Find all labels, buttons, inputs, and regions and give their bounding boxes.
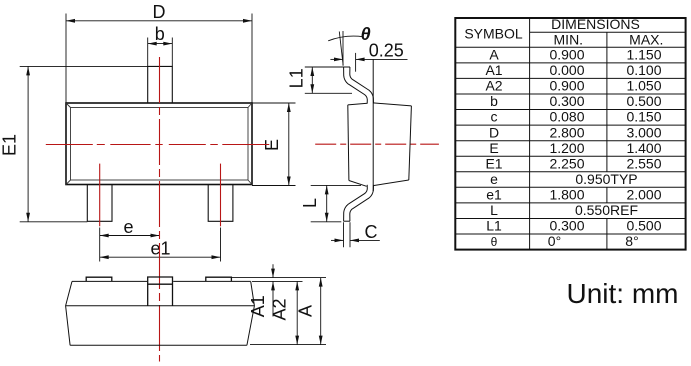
svg-text:Unit: mm: Unit: mm bbox=[567, 278, 679, 309]
svg-text:0.100: 0.100 bbox=[626, 62, 661, 78]
table body text bbox=[485, 47, 661, 250]
svg-text:L1: L1 bbox=[486, 218, 502, 234]
svg-text:2.800: 2.800 bbox=[549, 124, 584, 140]
top-view body inner (chamfer) rectangle bbox=[66, 103, 252, 185]
table header text bbox=[464, 16, 663, 48]
red centerline vertical (main, through tab and both lower views) bbox=[159, 57, 161, 362]
svg-text:A1: A1 bbox=[248, 295, 268, 317]
dimension A2 bbox=[250, 281, 326, 344]
bottom-right lead bbox=[208, 185, 233, 222]
svg-text:E1: E1 bbox=[485, 155, 502, 171]
svg-text:0.000: 0.000 bbox=[549, 62, 584, 78]
side-view bottom lead (gull wing) bbox=[344, 185, 374, 221]
red centerline horizontal (top view) bbox=[46, 144, 271, 146]
side-view top lead (gull wing) bbox=[344, 67, 374, 103]
svg-text:1.200: 1.200 bbox=[549, 140, 584, 156]
svg-text:0.150: 0.150 bbox=[626, 109, 661, 125]
svg-text:8°: 8° bbox=[625, 233, 638, 249]
svg-text:A: A bbox=[296, 305, 316, 317]
svg-text:E: E bbox=[489, 140, 498, 156]
svg-text:2.250: 2.250 bbox=[549, 155, 584, 171]
top-view body outer rectangle bbox=[66, 103, 252, 185]
dimension A1 bbox=[232, 264, 326, 316]
table grid lines bbox=[455, 18, 685, 250]
front-view right lead stub bbox=[206, 277, 232, 281]
front-view center tab lead bbox=[148, 277, 173, 306]
svg-text:A1: A1 bbox=[485, 62, 502, 78]
svg-text:1.150: 1.150 bbox=[626, 47, 661, 63]
red centerline through left lead bbox=[99, 164, 101, 227]
red centerline through right lead bbox=[220, 164, 222, 227]
svg-text:1.800: 1.800 bbox=[549, 187, 584, 203]
svg-text:0.500: 0.500 bbox=[626, 218, 661, 234]
front-view mold parting line bbox=[66, 305, 255, 307]
svg-text:A2: A2 bbox=[270, 298, 290, 320]
svg-text:L: L bbox=[300, 198, 320, 208]
svg-text:D: D bbox=[489, 124, 499, 140]
side-view lead through-line bbox=[372, 59, 374, 191]
svg-text:0°: 0° bbox=[548, 233, 561, 249]
dimension b bbox=[148, 38, 173, 67]
table frame bbox=[455, 18, 685, 250]
svg-text:DIMENSIONS: DIMENSIONS bbox=[551, 16, 640, 32]
svg-text:0.550REF: 0.550REF bbox=[575, 202, 638, 218]
red centerline horizontal (side view) bbox=[315, 143, 439, 145]
dimension L bbox=[311, 185, 361, 221]
svg-text:e: e bbox=[490, 171, 498, 187]
svg-text:0.300: 0.300 bbox=[549, 93, 584, 109]
svg-text:2.000: 2.000 bbox=[626, 187, 661, 203]
svg-text:3.000: 3.000 bbox=[626, 124, 661, 140]
svg-text:c: c bbox=[491, 109, 498, 125]
svg-text:C: C bbox=[365, 222, 378, 242]
dimension theta: seating extension line bbox=[342, 31, 344, 66]
svg-text:b: b bbox=[155, 24, 165, 44]
svg-text:0.900: 0.900 bbox=[549, 47, 584, 63]
svg-text:1.050: 1.050 bbox=[626, 78, 661, 94]
side-view body bbox=[348, 103, 412, 186]
front-view left lead stub bbox=[86, 277, 112, 281]
dimension E1 bbox=[20, 66, 148, 221]
front-view body outline bbox=[66, 281, 255, 345]
svg-text:L: L bbox=[490, 202, 498, 218]
svg-text:A2: A2 bbox=[485, 78, 502, 94]
svg-text:MIN.: MIN. bbox=[554, 31, 584, 47]
svg-text:L1: L1 bbox=[287, 68, 307, 88]
dimension e bbox=[100, 228, 221, 262]
dimension A bbox=[320, 278, 322, 345]
dimension e1 bbox=[100, 256, 221, 258]
svg-text:2.550: 2.550 bbox=[626, 155, 661, 171]
svg-text:MAX.: MAX. bbox=[629, 31, 663, 47]
dimension theta: slanted lead-face line bbox=[339, 32, 343, 66]
svg-text:e1: e1 bbox=[150, 239, 170, 259]
svg-text:E1: E1 bbox=[0, 134, 20, 156]
dimension C bbox=[331, 222, 380, 247]
svg-text:1.400: 1.400 bbox=[626, 140, 661, 156]
svg-text:e: e bbox=[123, 217, 133, 237]
dimension D bbox=[66, 14, 252, 104]
dimension L1 bbox=[305, 67, 352, 93]
dimension 0.25: gauge extension line bbox=[330, 53, 407, 72]
top tab lead (b) bbox=[148, 66, 173, 103]
svg-text:0.950TYP: 0.950TYP bbox=[575, 171, 637, 187]
svg-text:0.300: 0.300 bbox=[549, 218, 584, 234]
svg-text:A: A bbox=[489, 47, 499, 63]
dimension theta: angle arc bbox=[328, 36, 363, 41]
svg-text:θ: θ bbox=[491, 235, 498, 249]
svg-text:e1: e1 bbox=[486, 187, 502, 203]
svg-text:b: b bbox=[490, 93, 498, 109]
svg-text:D: D bbox=[153, 2, 166, 22]
svg-text:0.25: 0.25 bbox=[369, 41, 404, 61]
svg-text:0.500: 0.500 bbox=[626, 93, 661, 109]
dimension E bbox=[252, 103, 296, 186]
svg-text:0.900: 0.900 bbox=[549, 78, 584, 94]
svg-text:SYMBOL: SYMBOL bbox=[464, 25, 523, 41]
bottom-left lead bbox=[87, 185, 112, 222]
svg-text:0.080: 0.080 bbox=[549, 109, 584, 125]
